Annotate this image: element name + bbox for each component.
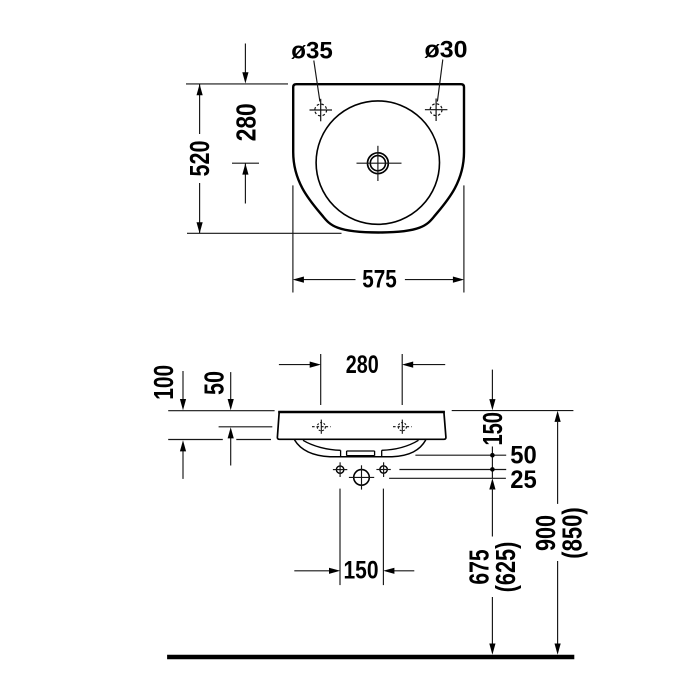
drain hole crosshair bbox=[349, 465, 374, 489]
slab top edge (thick) bbox=[278, 411, 445, 413]
extension line 575 left bbox=[292, 185, 294, 292]
extension line slab bottom left bbox=[168, 439, 271, 441]
dimension 150 bottom extension lines bbox=[340, 489, 383, 585]
label 900 (850) bbox=[530, 507, 587, 558]
dimension 280 top line bbox=[244, 44, 246, 204]
svg-text:575: 575 bbox=[362, 266, 397, 294]
dimension 280 elevation line bbox=[279, 364, 445, 366]
fixing hole left bbox=[336, 466, 343, 473]
svg-text:520: 520 bbox=[184, 141, 215, 177]
faucet cross left (elevation) bbox=[312, 420, 331, 434]
svg-text:ø35: ø35 bbox=[291, 38, 333, 65]
bowl underside arc right bbox=[382, 440, 419, 450]
svg-text:ø30: ø30 bbox=[425, 37, 468, 64]
svg-text:(850): (850) bbox=[557, 507, 588, 558]
svg-text:280: 280 bbox=[231, 103, 262, 141]
dimension 675 line bbox=[489, 478, 495, 489]
drain hole (elevation) bbox=[354, 470, 370, 486]
extension line slab top right bbox=[452, 410, 574, 412]
drain crosshair bbox=[357, 146, 402, 181]
leader line level fixing holes bbox=[399, 469, 506, 471]
leader line o35 bbox=[314, 61, 320, 102]
fixing hole right crosshair bbox=[376, 462, 390, 477]
extension line 575 right bbox=[463, 185, 465, 292]
fixing hole left crosshair bbox=[333, 462, 347, 477]
svg-text:25: 25 bbox=[510, 466, 537, 494]
dimension 280 top arrows bbox=[242, 72, 248, 174]
faucet hole right (top view) bbox=[425, 99, 448, 122]
dimension 50 left arrows bbox=[230, 372, 232, 465]
svg-text:150: 150 bbox=[477, 412, 508, 446]
leader line o30 bbox=[437, 60, 442, 102]
dimension 520 line bbox=[199, 84, 201, 233]
svg-text:280: 280 bbox=[346, 351, 379, 379]
underside skirt curve bbox=[295, 440, 426, 457]
extension line top edge bbox=[186, 83, 288, 85]
bowl underside arc left bbox=[303, 440, 341, 450]
dimension 150 bottom line bbox=[294, 570, 414, 572]
extension line slab top left bbox=[168, 410, 274, 412]
faucet hole left (top view) bbox=[310, 99, 333, 122]
svg-text:(625): (625) bbox=[490, 542, 521, 593]
drain outer circle bbox=[368, 153, 389, 174]
dimension 900 line bbox=[555, 411, 561, 422]
drain inner circle bbox=[370, 156, 385, 171]
dimension 280 elevation extension lines bbox=[321, 354, 403, 405]
svg-text:150: 150 bbox=[344, 557, 379, 585]
dimension chain right: 150 segment bbox=[491, 370, 493, 479]
basin outline (top view) bbox=[293, 84, 464, 232]
slab body outline bbox=[277, 412, 446, 439]
dimension 150 bottom arrows bbox=[329, 568, 394, 574]
floor line bbox=[167, 655, 574, 659]
extension tick drain level bbox=[232, 162, 259, 164]
svg-text:100: 100 bbox=[148, 365, 179, 400]
chain dot 25 bbox=[490, 467, 495, 472]
leader line level drain bbox=[389, 477, 506, 479]
dimension 280 elevation arrows bbox=[310, 362, 414, 368]
dimension 100 arrows bbox=[182, 371, 184, 479]
extension line bottom of basin bbox=[187, 232, 342, 234]
chain dot 50 bbox=[490, 453, 495, 458]
drain boss lines bbox=[341, 450, 382, 457]
faucet cross right (elevation) bbox=[393, 420, 412, 434]
dimension 520 arrows bbox=[197, 84, 203, 233]
dimension 575 line bbox=[303, 279, 454, 281]
svg-text:50: 50 bbox=[199, 371, 230, 395]
extension line mid left bbox=[219, 426, 273, 428]
inner bowl circle bbox=[316, 101, 439, 224]
dimension 575 arrows bbox=[293, 277, 464, 283]
label 675 (625) bbox=[464, 542, 521, 593]
leader line level underside bbox=[415, 454, 506, 456]
fixing hole right bbox=[380, 466, 387, 473]
